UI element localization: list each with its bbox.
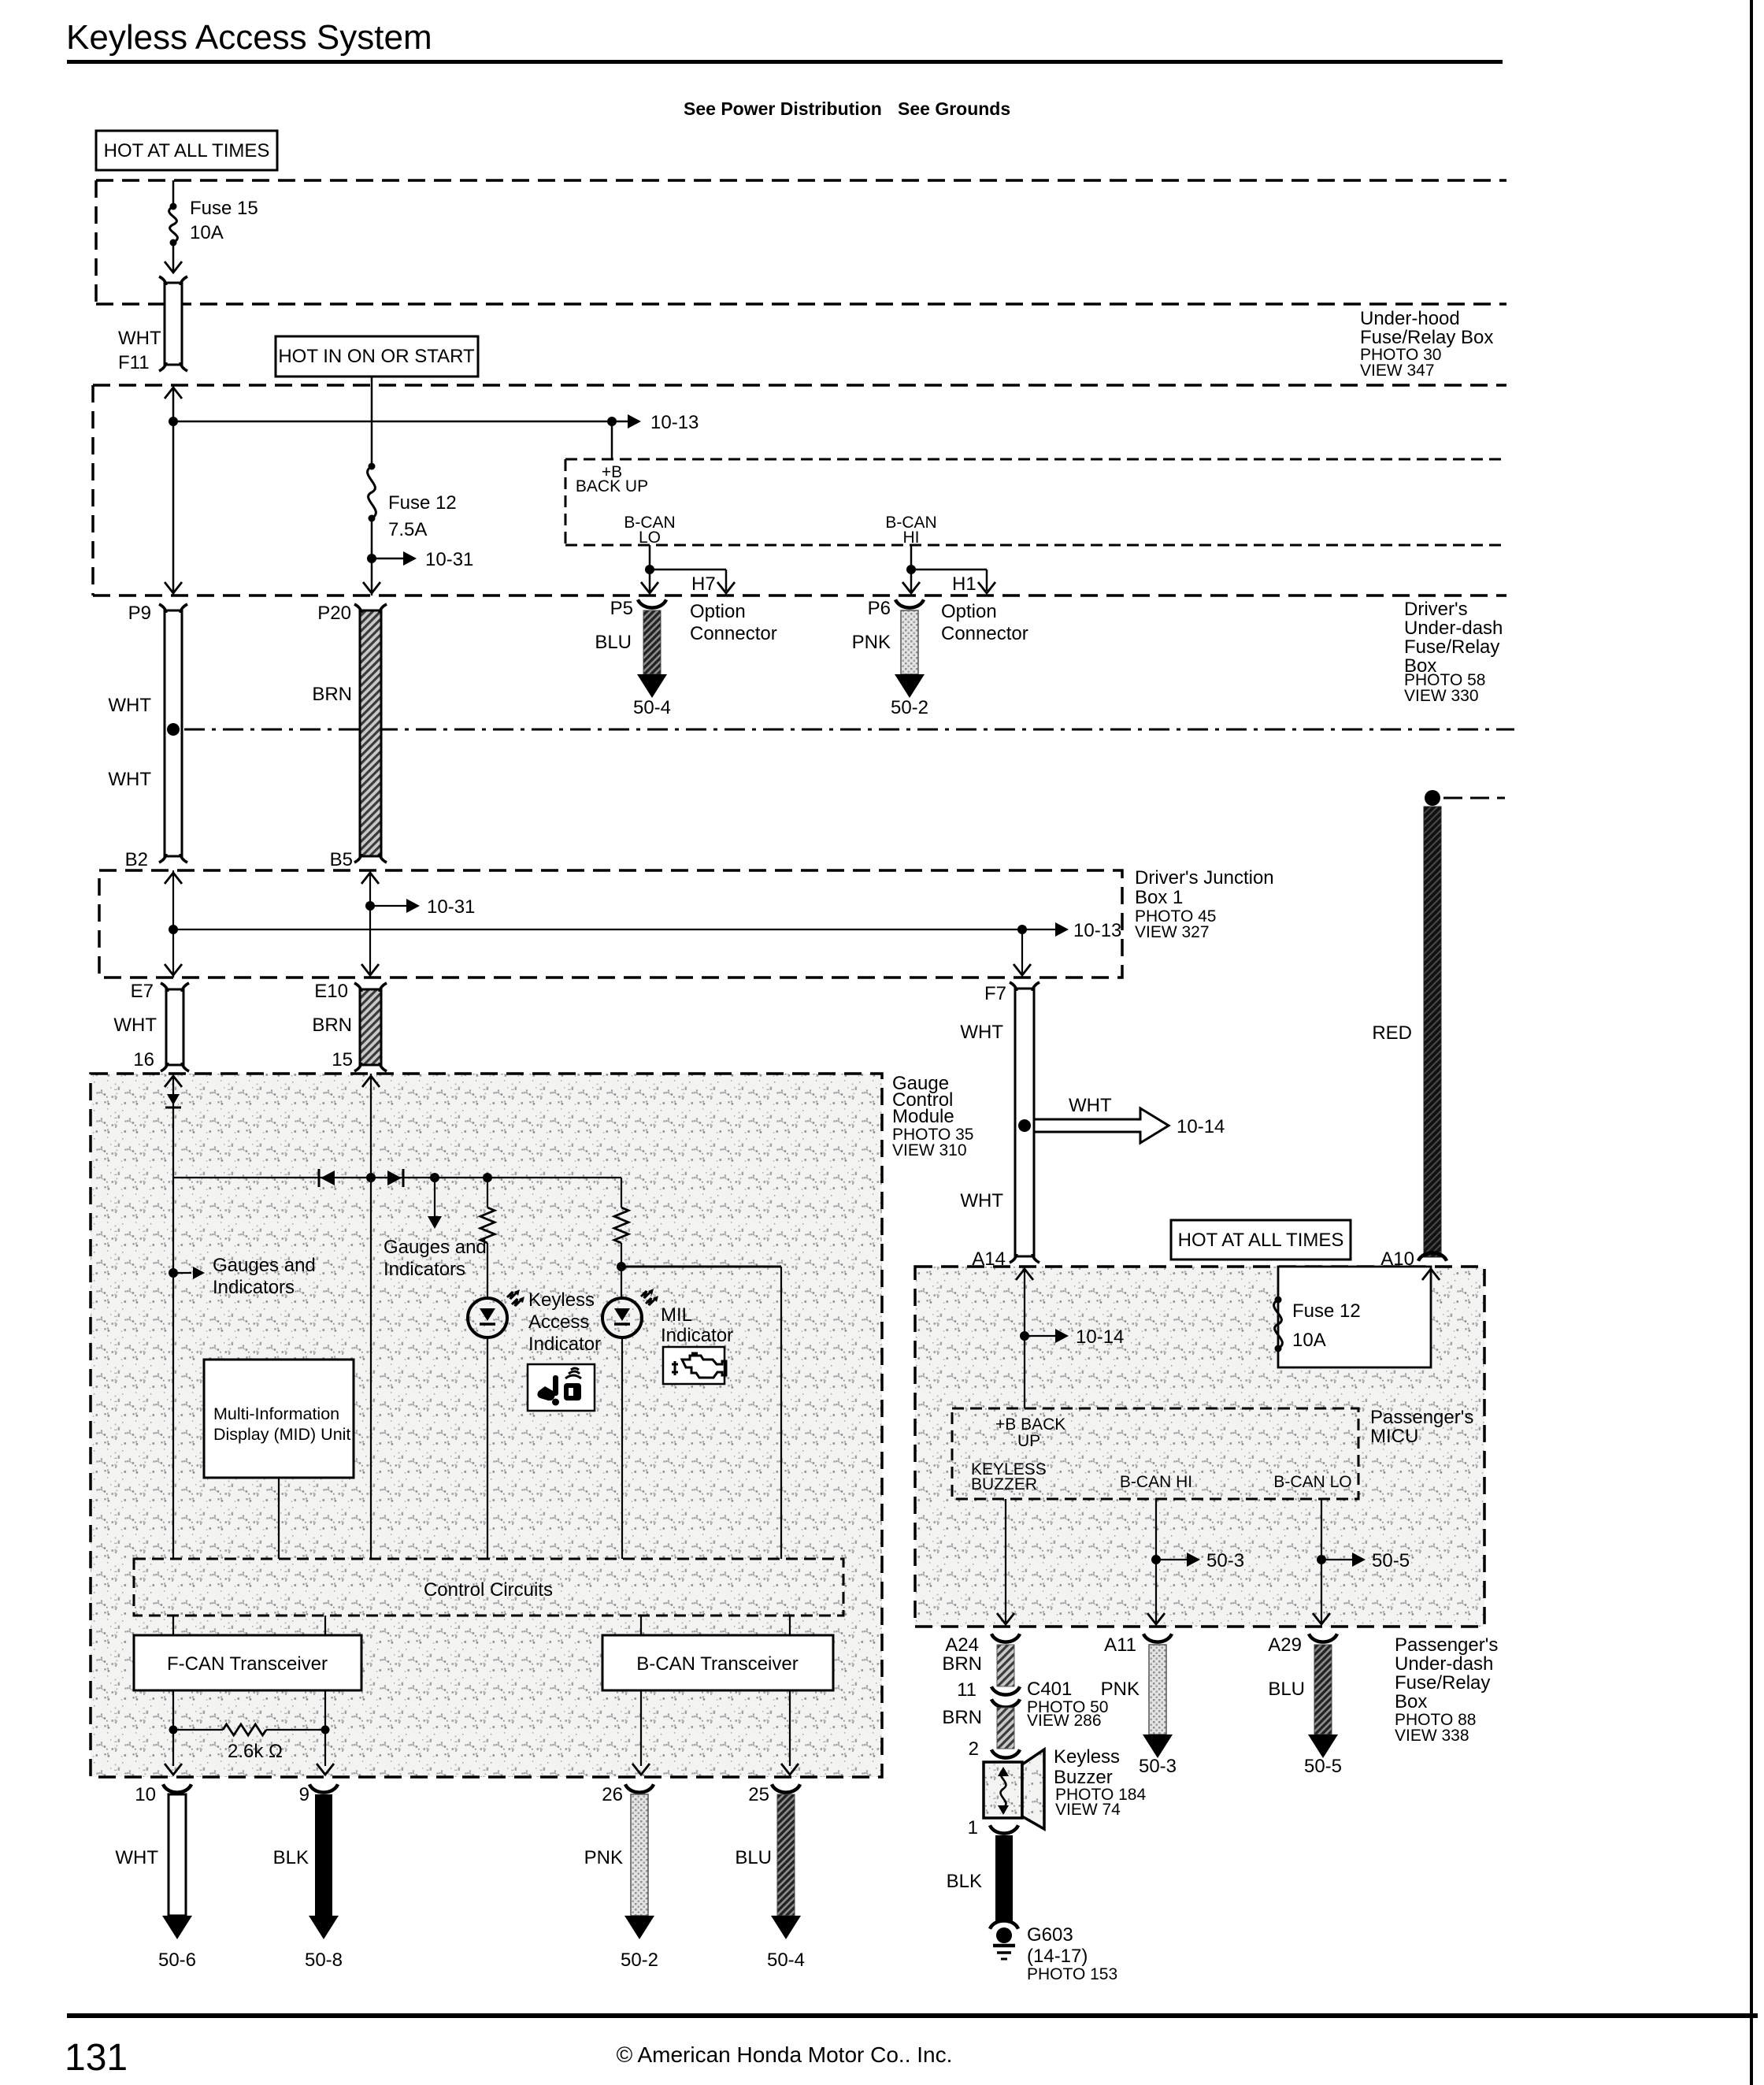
wire: keyless buzzer output bbox=[1005, 1499, 1006, 1624]
svg-text:Under-dash: Under-dash bbox=[1404, 618, 1503, 639]
gauge control module box (dashed, stippled) bbox=[91, 1074, 882, 1777]
svg-text:WHT: WHT bbox=[118, 328, 161, 349]
label box: HOT AT ALL TIMES (left) bbox=[96, 131, 277, 170]
svg-text:VIEW 347: VIEW 347 bbox=[1360, 362, 1435, 380]
internal bus wire in GCM bbox=[173, 1177, 621, 1178]
BLK wire to ground bbox=[995, 1835, 1013, 1922]
light emission squiggle (MIL) bbox=[641, 1291, 650, 1298]
svg-text:Fuse/Relay Box: Fuse/Relay Box bbox=[1360, 327, 1493, 348]
svg-text:Indicators: Indicators bbox=[384, 1259, 465, 1280]
wire: MIL right branch bbox=[621, 1266, 781, 1268]
svg-text:Access: Access bbox=[528, 1311, 589, 1333]
svg-text:2.6k Ω: 2.6k Ω bbox=[228, 1741, 283, 1762]
svg-text:A11: A11 bbox=[1104, 1634, 1136, 1656]
wire: A14 entry into MICU bbox=[1024, 1267, 1025, 1408]
footer rule bbox=[67, 2013, 1758, 2018]
svg-text:B-CAN LO: B-CAN LO bbox=[1273, 1473, 1351, 1491]
svg-text:VIEW 338: VIEW 338 bbox=[1395, 1727, 1469, 1745]
svg-text:Driver's: Driver's bbox=[1404, 599, 1468, 620]
svg-text:Gauges and: Gauges and bbox=[384, 1237, 487, 1258]
inner compartment box: +B BACK UP / B-CAN (dashed) bbox=[565, 459, 1506, 545]
wire: drop to F7 bbox=[1021, 929, 1023, 978]
svg-text:PNK: PNK bbox=[852, 632, 891, 653]
svg-text:Fuse/Relay: Fuse/Relay bbox=[1404, 636, 1499, 658]
svg-text:RED: RED bbox=[1372, 1022, 1412, 1044]
svg-text:10-14: 10-14 bbox=[1076, 1326, 1124, 1348]
svg-text:PNK: PNK bbox=[1101, 1679, 1140, 1700]
node: junction on F7 (10-14 takeoff) bbox=[1018, 1119, 1031, 1132]
svg-text:50-3: 50-3 bbox=[1139, 1756, 1177, 1777]
wire+resistor: MIL indicator branch bbox=[621, 1178, 622, 1208]
svg-text:10-31: 10-31 bbox=[425, 549, 473, 570]
node: junction on F11-P9 wire bbox=[169, 417, 178, 426]
node: junction gauges-left arrow bbox=[169, 1268, 178, 1278]
wire: B-CAN HI output bbox=[1155, 1499, 1157, 1624]
svg-text:50-2: 50-2 bbox=[621, 1950, 658, 1971]
connector P9 (WHT) bbox=[165, 610, 182, 856]
svg-text:F11: F11 bbox=[118, 352, 150, 373]
diode D2 (bus, pointing right) bbox=[387, 1170, 402, 1185]
wire: B-CAN out pin26 bbox=[640, 1690, 642, 1766]
wire: branch to 10-13 (top) bbox=[173, 421, 628, 423]
svg-text:Module: Module bbox=[892, 1106, 954, 1127]
svg-text:MIL: MIL bbox=[661, 1304, 692, 1326]
resistor R1 2.6k ohm bbox=[173, 1729, 223, 1731]
svg-text:+B BACK: +B BACK bbox=[995, 1415, 1065, 1434]
node: junction for 10-13 line bbox=[169, 925, 178, 934]
svg-text:PHOTO 153: PHOTO 153 bbox=[1027, 1965, 1117, 1983]
svg-text:WHT: WHT bbox=[115, 1847, 158, 1868]
svg-text:WHT: WHT bbox=[108, 769, 151, 790]
label box: HOT AT ALL TIMES (right) bbox=[1171, 1220, 1351, 1260]
node: H1 branch junction bbox=[906, 565, 916, 574]
svg-text:50-5: 50-5 bbox=[1372, 1550, 1410, 1571]
svg-text:E10: E10 bbox=[314, 981, 348, 1002]
driver's under-dash fuse/relay box (dashed) bbox=[93, 385, 1506, 595]
svg-text:Display (MID) Unit: Display (MID) Unit bbox=[213, 1425, 350, 1444]
wire: H1 option connector branch bbox=[911, 569, 987, 571]
wire: A10 entry arrow bbox=[1422, 1269, 1440, 1280]
wire: B-CAN LO to P5 bbox=[649, 545, 651, 593]
svg-text:H7: H7 bbox=[691, 573, 716, 595]
svg-text:10-13: 10-13 bbox=[1073, 920, 1121, 941]
under-hood fuse/relay box (dashed) bbox=[96, 180, 1506, 304]
wire+resistor: keyless access indicator branch bbox=[487, 1178, 488, 1208]
svg-text:HOT IN ON OR START: HOT IN ON OR START bbox=[278, 346, 475, 367]
svg-text:B2: B2 bbox=[125, 849, 148, 870]
wire: F-CAN out pin9 bbox=[324, 1690, 326, 1766]
wire: fuse 12 to P20 bbox=[371, 518, 373, 595]
svg-text:BLK: BLK bbox=[273, 1847, 309, 1868]
svg-text:Connector: Connector bbox=[690, 623, 777, 644]
svg-text:Under-hood: Under-hood bbox=[1360, 308, 1460, 329]
wire: F-CAN out pin10 bbox=[172, 1690, 174, 1766]
B-CAN transceiver box bbox=[602, 1635, 833, 1690]
wire: CC to F-CAN right bbox=[324, 1616, 326, 1635]
svg-text:G603: G603 bbox=[1027, 1924, 1073, 1946]
svg-text:B-CAN HI: B-CAN HI bbox=[1120, 1473, 1192, 1491]
svg-text:VIEW 74: VIEW 74 bbox=[1055, 1801, 1121, 1819]
node: 50-3 branch junction bbox=[1151, 1555, 1161, 1564]
svg-text:50-5: 50-5 bbox=[1304, 1756, 1342, 1777]
svg-text:10A: 10A bbox=[190, 222, 224, 243]
wire: fuse 15 to connector F11 bbox=[172, 243, 175, 271]
svg-text:PNK: PNK bbox=[584, 1847, 623, 1868]
svg-text:BLU: BLU bbox=[595, 632, 632, 653]
svg-text:LO: LO bbox=[639, 529, 661, 547]
svg-text:HOT AT ALL TIMES: HOT AT ALL TIMES bbox=[1178, 1230, 1344, 1251]
node: bus junction keyless LED bbox=[483, 1173, 492, 1182]
svg-text:Indicator: Indicator bbox=[661, 1325, 733, 1346]
svg-text:© American Honda Motor Co.. In: © American Honda Motor Co.. Inc. bbox=[617, 2042, 953, 2067]
wire: B5 to E10 through junction box bbox=[369, 870, 371, 978]
svg-text:H1: H1 bbox=[952, 573, 976, 595]
svg-text:VIEW 310: VIEW 310 bbox=[892, 1141, 967, 1159]
svg-text:50-6: 50-6 bbox=[158, 1950, 196, 1971]
svg-text:(14-17): (14-17) bbox=[1027, 1946, 1088, 1967]
svg-text:Control Circuits: Control Circuits bbox=[424, 1579, 553, 1601]
wire: drop to +B BACK UP bbox=[611, 421, 613, 459]
wire: pin 15 feed inside GCM bbox=[370, 1074, 372, 1559]
svg-text:BRN: BRN bbox=[942, 1653, 982, 1675]
svg-text:E7: E7 bbox=[131, 981, 154, 1002]
arrow: branch to 10-14 (MICU) bbox=[1025, 1335, 1055, 1337]
node: 10-31 branch junction bbox=[367, 554, 376, 563]
wire: B2 to E7 through junction box bbox=[172, 870, 174, 978]
svg-text:25: 25 bbox=[748, 1784, 769, 1805]
svg-text:P20: P20 bbox=[317, 603, 351, 624]
svg-text:Fuse 12: Fuse 12 bbox=[388, 492, 457, 514]
svg-text:Fuse 12: Fuse 12 bbox=[1292, 1300, 1361, 1322]
svg-text:Keyless: Keyless bbox=[528, 1289, 595, 1311]
fuse F15 (Fuse 15 10A) bbox=[170, 203, 177, 210]
fuse box: Fuse 12 10A (passenger) bbox=[1278, 1267, 1431, 1367]
node: junction to +B back up drop bbox=[607, 417, 617, 426]
svg-text:WHT: WHT bbox=[960, 1190, 1003, 1211]
connector F11 (WHT) bbox=[165, 283, 182, 365]
internal termination arrow on pin16 wire bbox=[167, 1094, 180, 1105]
svg-text:16: 16 bbox=[133, 1049, 154, 1070]
svg-text:Keyless Access System: Keyless Access System bbox=[66, 18, 432, 57]
svg-text:WHT: WHT bbox=[1069, 1095, 1112, 1116]
wire: CC to F-CAN left bbox=[172, 1616, 174, 1635]
svg-text:Driver's Junction: Driver's Junction bbox=[1135, 867, 1274, 889]
svg-text:Connector: Connector bbox=[941, 623, 1028, 644]
wire: B-CAN out pin25 bbox=[789, 1690, 791, 1766]
svg-text:Option: Option bbox=[690, 601, 746, 622]
svg-text:B-CAN Transceiver: B-CAN Transceiver bbox=[636, 1653, 798, 1675]
svg-text:50-8: 50-8 bbox=[305, 1950, 343, 1971]
svg-text:Gauges and: Gauges and bbox=[213, 1255, 316, 1276]
svg-text:VIEW 330: VIEW 330 bbox=[1404, 687, 1479, 705]
wire: drop to gauges and indicators arrow bbox=[434, 1178, 435, 1216]
svg-text:A29: A29 bbox=[1268, 1634, 1302, 1656]
svg-text:P5: P5 bbox=[610, 598, 633, 619]
fuse F12p (Fuse 12 10A) bbox=[1275, 1297, 1282, 1304]
wire: CC to B-CAN right bbox=[789, 1616, 791, 1635]
keyless access indicator icon box bbox=[528, 1364, 595, 1411]
node: MIL branch junction bbox=[617, 1262, 626, 1271]
svg-text:Fuse 15: Fuse 15 bbox=[190, 198, 258, 219]
inner MICU compartment box (dashed) bbox=[952, 1408, 1358, 1499]
svg-text:11: 11 bbox=[957, 1679, 976, 1701]
svg-text:Box 1: Box 1 bbox=[1135, 887, 1183, 908]
svg-text:50-4: 50-4 bbox=[767, 1950, 805, 1971]
node: F7 drop junction bbox=[1017, 925, 1027, 934]
svg-text:BRN: BRN bbox=[312, 684, 352, 705]
multi-information display (MID) unit box bbox=[204, 1360, 354, 1478]
wire: branch arrow 10-31 (top) bbox=[372, 558, 403, 560]
svg-text:See Power Distribution: See Power Distribution bbox=[684, 98, 882, 119]
svg-text:Option: Option bbox=[941, 601, 997, 622]
svg-text:Keyless: Keyless bbox=[1054, 1746, 1120, 1768]
svg-text:BRN: BRN bbox=[942, 1707, 982, 1728]
svg-text:Indicators: Indicators bbox=[213, 1277, 295, 1298]
svg-text:VIEW 327: VIEW 327 bbox=[1135, 923, 1210, 941]
svg-text:10A: 10A bbox=[1292, 1330, 1326, 1351]
wire: CC to B-CAN left bbox=[640, 1616, 642, 1635]
wire: branch arrow 10-31 (junction box) bbox=[370, 905, 406, 907]
svg-text:HOT AT ALL TIMES: HOT AT ALL TIMES bbox=[104, 140, 270, 161]
arrow: to gauges and indicators (left) bbox=[173, 1272, 191, 1274]
svg-text:26: 26 bbox=[602, 1784, 623, 1805]
ground G603 bbox=[990, 1920, 1018, 1928]
wire: pin 16 feed inside GCM bbox=[172, 1074, 174, 1559]
RED wire from page reference to A10 bbox=[1425, 790, 1440, 806]
svg-text:9: 9 bbox=[299, 1784, 309, 1805]
svg-text:Buzzer: Buzzer bbox=[1054, 1767, 1113, 1788]
svg-text:15: 15 bbox=[332, 1049, 353, 1070]
arrow: branch to 50-5 bbox=[1321, 1559, 1352, 1560]
wire: B-CAN HI to P6 bbox=[910, 545, 913, 593]
connector E10 (BRN) bbox=[360, 989, 381, 1065]
svg-text:10-31: 10-31 bbox=[427, 896, 475, 918]
passenger's MICU box (dashed, stippled) bbox=[915, 1267, 1484, 1627]
svg-text:See Grounds: See Grounds bbox=[898, 98, 1010, 119]
connector E7 (WHT) bbox=[166, 989, 183, 1065]
svg-text:BLK: BLK bbox=[947, 1871, 982, 1892]
svg-text:F-CAN Transceiver: F-CAN Transceiver bbox=[167, 1653, 328, 1675]
svg-text:131: 131 bbox=[65, 2037, 128, 2079]
svg-text:BUZZER: BUZZER bbox=[971, 1475, 1037, 1493]
wire: MID unit to control circuits bbox=[278, 1478, 280, 1559]
svg-text:Passenger's: Passenger's bbox=[1395, 1634, 1498, 1656]
svg-text:A24: A24 bbox=[945, 1634, 979, 1656]
wire: F11 to P9 vertical bbox=[172, 385, 175, 595]
control circuits box (dashed) bbox=[134, 1559, 843, 1616]
MIL indicator icon box (engine symbol) bbox=[663, 1347, 724, 1384]
connector F7 (WHT) bbox=[1015, 989, 1034, 1256]
page right border line bbox=[1750, 0, 1753, 2085]
LED: MIL indicator bbox=[602, 1298, 642, 1337]
dash-dot reference line from P9 bbox=[184, 729, 1514, 731]
arrow: branch to 50-3 bbox=[1156, 1559, 1187, 1560]
wire: B-CAN LO output bbox=[1321, 1499, 1322, 1624]
wire: H7 option connector branch bbox=[650, 569, 726, 571]
svg-text:10-14: 10-14 bbox=[1177, 1116, 1225, 1137]
open arrow: WHT to 10-14 bbox=[1034, 1108, 1169, 1143]
node: page-reference junction on P9 wire bbox=[167, 723, 180, 736]
node: bus junction gauges drop bbox=[430, 1173, 439, 1182]
node: bus junction at pin15 wire bbox=[366, 1173, 376, 1182]
svg-text:Multi-Information: Multi-Information bbox=[213, 1404, 339, 1423]
label box: HOT IN ON OR START bbox=[276, 336, 478, 377]
svg-text:Indicator: Indicator bbox=[528, 1334, 601, 1355]
svg-text:50-4: 50-4 bbox=[633, 697, 671, 718]
svg-text:F7: F7 bbox=[984, 983, 1006, 1004]
svg-text:BRN: BRN bbox=[312, 1015, 352, 1036]
keyless buzzer component bbox=[984, 1762, 1022, 1818]
F-CAN transceiver box bbox=[134, 1635, 361, 1690]
svg-text:WHT: WHT bbox=[108, 695, 151, 716]
svg-text:B5: B5 bbox=[330, 849, 353, 870]
svg-text:7.5A: 7.5A bbox=[388, 519, 427, 540]
node: 10-14 branch junction (MICU) bbox=[1020, 1331, 1029, 1341]
svg-text:WHT: WHT bbox=[960, 1022, 1003, 1043]
node: 50-5 branch junction bbox=[1317, 1555, 1326, 1564]
node: resistor right junction bbox=[321, 1726, 330, 1734]
connector P20 (BRN) bbox=[360, 610, 381, 856]
node: junction for 10-31 branch bbox=[365, 901, 375, 911]
svg-text:Fuse/Relay: Fuse/Relay bbox=[1395, 1672, 1490, 1694]
svg-text:MICU: MICU bbox=[1370, 1426, 1418, 1447]
svg-text:Passenger's: Passenger's bbox=[1370, 1407, 1473, 1428]
svg-text:HI: HI bbox=[903, 529, 920, 547]
wire: long branch to 10-13 (junction box) bbox=[173, 929, 1055, 930]
light emission squiggle (keyless) bbox=[507, 1292, 517, 1299]
svg-text:Box: Box bbox=[1395, 1691, 1427, 1712]
svg-text:P6: P6 bbox=[868, 598, 891, 619]
svg-text:1: 1 bbox=[968, 1817, 978, 1838]
svg-text:50-2: 50-2 bbox=[891, 697, 928, 718]
svg-text:WHT: WHT bbox=[113, 1015, 157, 1036]
fuse F12 (Fuse 12 7.5A) bbox=[369, 463, 376, 470]
svg-text:2: 2 bbox=[969, 1738, 979, 1760]
title underline bbox=[67, 60, 1503, 64]
svg-text:BLU: BLU bbox=[735, 1847, 772, 1868]
svg-text:UP: UP bbox=[1017, 1432, 1040, 1450]
node: H7 branch junction bbox=[645, 565, 654, 574]
svg-text:VIEW 286: VIEW 286 bbox=[1027, 1712, 1102, 1730]
svg-text:BACK UP: BACK UP bbox=[576, 477, 648, 495]
BRN wire below C401 bbox=[997, 1708, 1014, 1749]
svg-text:P9: P9 bbox=[128, 603, 151, 624]
wire: battery feed into fuse 15 bbox=[172, 180, 175, 206]
svg-text:10: 10 bbox=[135, 1784, 156, 1805]
svg-text:50-3: 50-3 bbox=[1206, 1550, 1244, 1571]
driver's junction box 1 (dashed) bbox=[99, 870, 1122, 978]
diode D1 (bus, pointing left) bbox=[318, 1169, 321, 1187]
svg-text:C401: C401 bbox=[1027, 1679, 1072, 1700]
node: resistor left junction bbox=[169, 1726, 178, 1734]
svg-text:BLU: BLU bbox=[1268, 1679, 1305, 1700]
svg-text:Under-dash: Under-dash bbox=[1395, 1653, 1493, 1675]
wire: HOT IN ON OR START to P20 vertical bbox=[371, 377, 373, 466]
svg-text:10-13: 10-13 bbox=[650, 412, 699, 433]
LED: keyless access indicator bbox=[468, 1298, 507, 1337]
